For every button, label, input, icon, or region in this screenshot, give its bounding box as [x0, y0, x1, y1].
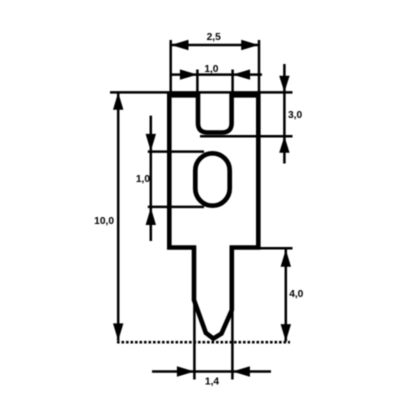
svg-text:2,5: 2,5 — [207, 32, 221, 43]
svg-text:4,0: 4,0 — [289, 289, 303, 300]
svg-text:1,0: 1,0 — [136, 174, 150, 185]
svg-text:3,0: 3,0 — [288, 110, 302, 121]
svg-text:10,0: 10,0 — [94, 216, 114, 227]
svg-text:1,4: 1,4 — [205, 376, 219, 387]
svg-text:1,0: 1,0 — [204, 64, 218, 75]
